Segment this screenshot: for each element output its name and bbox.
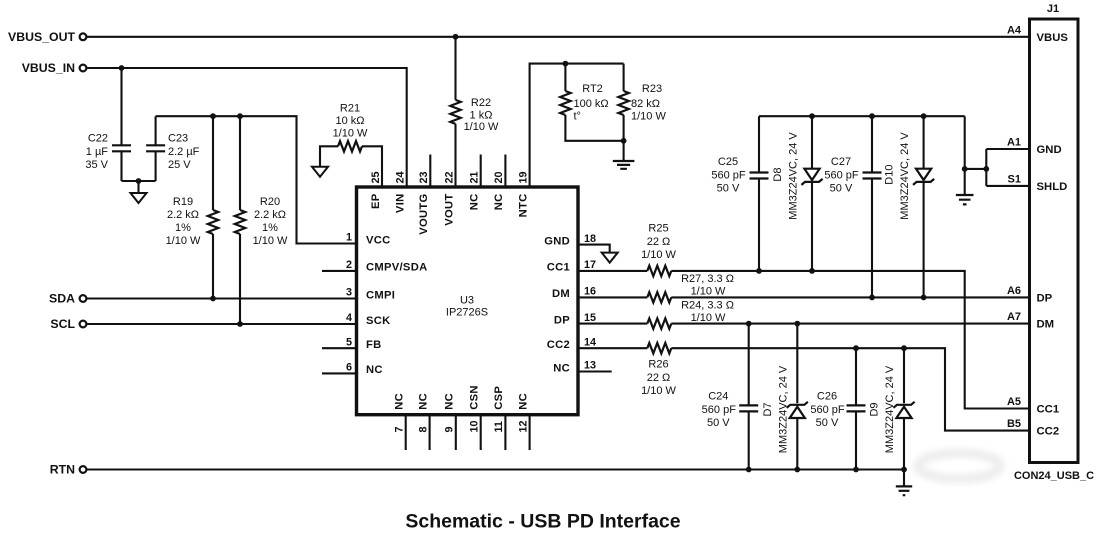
wire pin9 stub: [455, 415, 457, 450]
wire pin18 to gnd: [578, 245, 610, 253]
wire J1 S1 wire: [986, 185, 1029, 187]
svg-text:NC: NC: [394, 393, 406, 410]
svg-text:CC2: CC2: [1037, 426, 1060, 438]
zener diode D9: [896, 407, 911, 418]
svg-text:1 kΩ: 1 kΩ: [470, 110, 493, 122]
wire R21 leads: [320, 146, 382, 187]
svg-text:VIN: VIN: [395, 194, 407, 214]
junction rail-C27: [869, 113, 875, 119]
svg-text:NC: NC: [469, 194, 481, 211]
wire gnd bridge: [965, 116, 987, 195]
wire C25 leads: [758, 116, 760, 271]
resistor R20: [235, 210, 245, 234]
terminal SCL: [80, 321, 87, 328]
svg-text:MM3Z24VC, 24 V: MM3Z24VC, 24 V: [899, 132, 911, 220]
junction rail-R20: [237, 113, 243, 119]
svg-text:13: 13: [584, 360, 596, 372]
svg-text:22 Ω: 22 Ω: [647, 372, 671, 384]
junction C25-CC1: [756, 268, 762, 274]
wire VBUS_IN to U3 VIN: [87, 68, 407, 187]
ground GND below C22/C23: [131, 193, 147, 203]
wire top gnd rail: [759, 115, 965, 117]
junction C22-C23 gnd: [136, 178, 142, 184]
wire VCC rail to pin1: [156, 116, 357, 243]
op-amp U3 IP2726S body: [357, 187, 579, 415]
svg-text:50 V: 50 V: [830, 183, 853, 195]
svg-text:R21: R21: [340, 103, 360, 115]
svg-text:VBUS_OUT: VBUS_OUT: [8, 30, 75, 44]
svg-text:14: 14: [584, 336, 596, 348]
svg-text:DM: DM: [1037, 319, 1055, 331]
capacitor C27: [863, 173, 882, 179]
svg-text:18: 18: [584, 233, 596, 245]
resistor R21: [338, 141, 362, 151]
svg-text:100 kΩ: 100 kΩ: [574, 98, 609, 110]
wire DP net: [578, 296, 1030, 298]
svg-text:17: 17: [584, 259, 596, 271]
wire gnd stem C22/C23: [137, 181, 139, 193]
svg-text:S1: S1: [1008, 173, 1021, 185]
svg-text:U3: U3: [460, 295, 474, 307]
svg-text:22 Ω: 22 Ω: [647, 236, 671, 248]
wire pin12 stub: [529, 415, 531, 450]
svg-text:C25: C25: [718, 156, 738, 168]
wire C22 branch: [122, 68, 156, 181]
svg-text:560 pF: 560 pF: [824, 169, 859, 181]
resistor R22: [450, 100, 460, 124]
svg-text:t°: t°: [574, 111, 581, 123]
svg-text:CSP: CSP: [493, 386, 505, 410]
svg-text:1/10 W: 1/10 W: [333, 127, 368, 139]
svg-text:19: 19: [517, 171, 529, 183]
svg-text:RT2: RT2: [582, 83, 603, 95]
svg-text:CSN: CSN: [469, 385, 481, 410]
svg-text:GND: GND: [1037, 144, 1062, 156]
svg-text:1/10 W: 1/10 W: [166, 235, 201, 247]
wire NTC run: [530, 64, 624, 187]
svg-text:16: 16: [584, 286, 596, 298]
svg-text:FB: FB: [366, 339, 382, 351]
junction SCL-R20: [237, 321, 243, 327]
junction D10-DP: [921, 295, 927, 301]
svg-text:15: 15: [584, 312, 596, 324]
junction DM-D7: [794, 321, 800, 327]
svg-text:7: 7: [394, 426, 406, 432]
svg-text:D9: D9: [869, 402, 881, 416]
junction NTC-RT2: [563, 61, 569, 67]
svg-text:R24, 3.3 Ω: R24, 3.3 Ω: [681, 299, 734, 311]
svg-text:DP: DP: [554, 314, 570, 326]
wire DM net: [578, 323, 1030, 325]
ground GND below pin18: [602, 253, 618, 263]
svg-text:20: 20: [493, 171, 505, 183]
capacitor C22: [112, 145, 131, 151]
zener diode D7: [790, 407, 805, 418]
wire VBUS_OUT to J1 A4: [87, 36, 1030, 38]
svg-text:2.2 kΩ: 2.2 kΩ: [167, 209, 199, 221]
wire C23 branch: [155, 116, 157, 181]
wire pin23 stub: [429, 155, 431, 188]
wire pin2 stub: [322, 270, 357, 272]
wire gnd stem R23: [623, 141, 625, 161]
svg-text:SDA: SDA: [49, 292, 75, 306]
wire pin10 stub: [480, 415, 482, 450]
svg-text:C23: C23: [168, 133, 188, 145]
svg-text:A1: A1: [1007, 136, 1021, 148]
connector J1 body: [1030, 19, 1079, 463]
resistor R26: [647, 343, 671, 353]
svg-text:DM: DM: [552, 288, 570, 300]
svg-text:3: 3: [346, 287, 352, 299]
svg-text:NC: NC: [493, 194, 505, 211]
svg-text:R27, 3.3 Ω: R27, 3.3 Ω: [681, 273, 734, 285]
wire R20 leads: [239, 116, 241, 324]
svg-text:1/10 W: 1/10 W: [641, 385, 676, 397]
junction rail-R19: [210, 113, 216, 119]
svg-text:CC1: CC1: [547, 262, 570, 274]
capacitor C25: [750, 173, 769, 179]
junction gnd bridge junction: [983, 166, 989, 172]
svg-text:A6: A6: [1007, 285, 1021, 297]
junction SDA-R19: [210, 296, 216, 302]
svg-text:35 V: 35 V: [85, 159, 108, 171]
svg-text:CMPV/SDA: CMPV/SDA: [366, 262, 427, 274]
svg-text:82 kΩ: 82 kΩ: [631, 98, 660, 110]
svg-text:A5: A5: [1007, 396, 1021, 408]
wire CC2 net: [578, 348, 1030, 430]
capacitor C24: [739, 405, 758, 411]
svg-text:25: 25: [370, 171, 382, 183]
svg-text:CC2: CC2: [547, 339, 570, 351]
svg-text:R19: R19: [173, 196, 193, 208]
wire D7 leads: [796, 324, 798, 470]
svg-text:MM3Z24VC, 24 V: MM3Z24VC, 24 V: [884, 365, 896, 453]
junction gnd junction: [962, 166, 968, 172]
resistor R23: [618, 91, 628, 115]
wire J1 A1 wire: [986, 148, 1029, 150]
svg-text:5: 5: [346, 336, 352, 348]
svg-text:J1: J1: [1047, 3, 1059, 15]
svg-text:560 pF: 560 pF: [702, 404, 737, 416]
resistor RT2: [560, 91, 570, 115]
svg-text:50 V: 50 V: [816, 417, 839, 429]
wire pin7 stub: [405, 415, 407, 450]
svg-text:1/10 W: 1/10 W: [631, 111, 666, 123]
junction VBUS_IN-C22: [119, 65, 125, 71]
svg-text:1/10 W: 1/10 W: [641, 249, 676, 261]
svg-text:50 V: 50 V: [707, 417, 730, 429]
wire R19 leads: [212, 116, 214, 298]
junction CC2-C26: [853, 345, 859, 351]
wire D10 leads: [923, 116, 925, 297]
junction RT2/R23 gnd: [621, 138, 627, 144]
svg-text:1/10 W: 1/10 W: [253, 235, 288, 247]
svg-text:MM3Z24VC, 24 V: MM3Z24VC, 24 V: [777, 365, 789, 453]
svg-text:12: 12: [517, 420, 529, 432]
wire pin20 stub: [504, 155, 506, 188]
svg-text:22: 22: [444, 171, 456, 183]
svg-text:DP: DP: [1037, 292, 1053, 304]
junction VBUS_OUT-R22: [453, 34, 459, 40]
svg-text:NC: NC: [553, 362, 570, 374]
svg-text:SHLD: SHLD: [1037, 181, 1068, 193]
wire pin13 stub: [578, 370, 612, 372]
wire C24 leads: [748, 324, 750, 470]
junction C26-RTN: [853, 467, 859, 473]
svg-text:10 kΩ: 10 kΩ: [335, 115, 364, 127]
svg-text:1/10 W: 1/10 W: [464, 121, 499, 133]
svg-text:50 V: 50 V: [717, 183, 740, 195]
junction C27-DP: [869, 295, 875, 301]
wire CC1 net: [578, 271, 1030, 409]
svg-text:NC: NC: [517, 393, 529, 410]
resistor R27: [647, 292, 671, 302]
svg-text:NTC: NTC: [517, 194, 529, 218]
ground GND below RTN end: [896, 486, 912, 495]
svg-text:560 pF: 560 pF: [810, 404, 845, 416]
zener diode D8: [804, 169, 819, 180]
svg-text:C24: C24: [708, 391, 728, 403]
svg-text:11: 11: [493, 421, 505, 432]
wire pin5 stub: [322, 347, 357, 349]
svg-text:D8: D8: [772, 168, 784, 182]
svg-text:C26: C26: [817, 391, 837, 403]
wire pin8 stub: [429, 415, 431, 450]
svg-text:VCC: VCC: [366, 234, 391, 246]
svg-text:21: 21: [469, 171, 481, 183]
svg-text:VBUS: VBUS: [1037, 32, 1069, 44]
junction DM-C24: [746, 321, 752, 327]
wire RTN rail: [87, 468, 904, 470]
wire pin21 stub: [480, 155, 482, 188]
svg-text:8: 8: [417, 426, 429, 432]
svg-text:IP2726S: IP2726S: [446, 307, 488, 319]
terminal SDA: [80, 295, 87, 302]
svg-text:9: 9: [444, 426, 456, 432]
wire D8 leads: [811, 116, 813, 271]
resistor R19: [208, 210, 218, 234]
svg-text:1%: 1%: [262, 222, 278, 234]
svg-text:6: 6: [346, 362, 352, 374]
zener diode D10: [916, 169, 931, 180]
svg-text:GND: GND: [544, 235, 570, 247]
svg-text:CON24_USB_C: CON24_USB_C: [1014, 470, 1094, 482]
svg-text:Schematic - USB PD Interface: Schematic - USB PD Interface: [405, 511, 680, 533]
svg-text:10: 10: [469, 420, 481, 432]
resistor R25: [647, 266, 671, 276]
svg-text:R23: R23: [642, 83, 662, 95]
svg-text:B5: B5: [1007, 418, 1021, 430]
resistor R24: [647, 318, 671, 328]
svg-text:D7: D7: [762, 402, 774, 416]
junction rail-D10: [921, 113, 927, 119]
svg-text:C27: C27: [831, 156, 851, 168]
svg-text:A7: A7: [1007, 311, 1021, 323]
svg-text:VBUS_IN: VBUS_IN: [22, 61, 75, 75]
svg-text:A4: A4: [1007, 24, 1022, 36]
svg-text:SCL: SCL: [50, 317, 75, 331]
junction CC2-D9: [901, 345, 907, 351]
svg-text:4: 4: [346, 312, 352, 324]
ground GND right: [956, 195, 974, 204]
svg-text:2.2 kΩ: 2.2 kΩ: [254, 209, 286, 221]
svg-text:1/10 W: 1/10 W: [691, 312, 726, 324]
svg-text:EP: EP: [370, 193, 382, 209]
svg-text:1 µF: 1 µF: [86, 146, 109, 158]
capacitor C23: [146, 145, 165, 151]
wire C26 leads: [855, 348, 857, 469]
svg-text:560 pF: 560 pF: [711, 169, 746, 181]
svg-text:NC: NC: [444, 393, 456, 410]
svg-text:23: 23: [418, 171, 430, 183]
terminal VBUS_IN: [80, 65, 87, 72]
svg-text:1%: 1%: [175, 222, 191, 234]
junction rail-D8: [809, 113, 815, 119]
junction C24-RTN: [746, 467, 752, 473]
wire RT2 leads: [565, 64, 623, 141]
svg-text:24: 24: [395, 171, 407, 183]
svg-text:R25: R25: [648, 223, 668, 235]
wire SDA to U3 CMPI: [87, 297, 357, 299]
svg-text:CMPI: CMPI: [366, 289, 395, 301]
svg-text:2.2 µF: 2.2 µF: [168, 146, 200, 158]
ground GND below R21: [312, 167, 328, 177]
svg-text:NC: NC: [417, 393, 429, 410]
svg-text:R26: R26: [648, 359, 668, 371]
terminal RTN: [80, 466, 87, 473]
svg-text:1: 1: [346, 232, 352, 244]
svg-text:RTN: RTN: [50, 463, 75, 477]
svg-text:VOUTG: VOUTG: [418, 194, 430, 235]
wire C27 leads: [871, 116, 873, 297]
svg-text:C22: C22: [88, 133, 108, 145]
wire R23 leads: [623, 64, 625, 141]
svg-text:NC: NC: [366, 364, 383, 376]
svg-text:R20: R20: [260, 196, 280, 208]
ground GND below R23: [613, 161, 635, 169]
svg-text:25 V: 25 V: [168, 159, 191, 171]
wire R22 leads: [454, 37, 456, 187]
junction D7-RTN: [794, 467, 800, 473]
svg-text:MM3Z24VC, 24 V: MM3Z24VC, 24 V: [788, 132, 800, 220]
svg-text:VOUT: VOUT: [444, 194, 456, 226]
wire D9 leads: [903, 348, 905, 486]
svg-text:SCK: SCK: [366, 315, 391, 327]
capacitor C26: [847, 405, 866, 411]
terminal VBUS_OUT: [80, 33, 87, 40]
wire SCL to U3 SCK: [87, 323, 357, 325]
wire pin6 stub: [322, 372, 357, 374]
junction D9-RTN: [901, 467, 907, 473]
svg-text:CC1: CC1: [1037, 404, 1060, 416]
svg-text:R22: R22: [471, 97, 491, 109]
svg-text:D10: D10: [884, 165, 896, 185]
junction D8-CC1: [809, 268, 815, 274]
svg-text:2: 2: [346, 259, 352, 271]
wire pin11 stub: [504, 415, 506, 450]
svg-text:1/10 W: 1/10 W: [691, 285, 726, 297]
